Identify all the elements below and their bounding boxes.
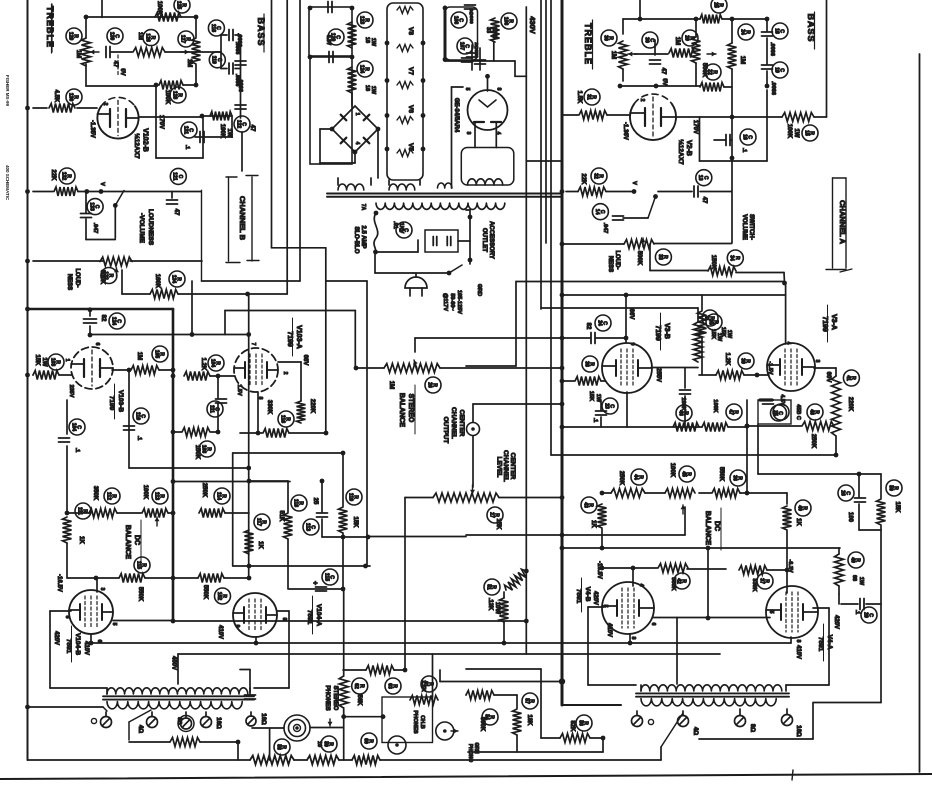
svg-text:PHONO: PHONO xyxy=(467,744,473,762)
svg-text:3: 3 xyxy=(465,132,471,135)
svg-text:V7: V7 xyxy=(407,67,414,75)
svg-text:CHANNEL B: CHANNEL B xyxy=(238,196,247,241)
svg-text:220K: 220K xyxy=(309,399,315,414)
svg-text:STEREO: STEREO xyxy=(407,394,414,423)
svg-text:BALANCE: BALANCE xyxy=(398,393,405,428)
svg-text:½12AX7: ½12AX7 xyxy=(677,139,685,165)
svg-text:100K: 100K xyxy=(164,90,170,105)
svg-text:6.3V: 6.3V xyxy=(325,35,331,46)
svg-text:118: 118 xyxy=(210,24,216,32)
svg-text:V3-B: V3-B xyxy=(663,323,670,339)
svg-text:DC: DC xyxy=(713,521,720,531)
svg-text:.0066: .0066 xyxy=(769,42,775,56)
svg-text:250K: 250K xyxy=(618,471,624,486)
svg-text:45B C: 45B C xyxy=(795,404,801,420)
svg-text:170V: 170V xyxy=(692,120,698,134)
svg-text:7199: 7199 xyxy=(654,325,661,341)
svg-text:100: 100 xyxy=(847,512,853,523)
svg-text:V2-B: V2-B xyxy=(685,140,692,156)
svg-text:-16.5V: -16.5V xyxy=(56,574,62,592)
svg-text:112: 112 xyxy=(105,492,111,500)
svg-text:ACCESSORY: ACCESSORY xyxy=(488,221,494,259)
svg-text:.047: .047 xyxy=(602,223,608,234)
svg-text:V: V xyxy=(631,181,637,185)
svg-text:.0066: .0066 xyxy=(770,81,776,95)
svg-text:1W: 1W xyxy=(858,577,864,586)
svg-text:7199: 7199 xyxy=(286,331,293,347)
svg-text:130: 130 xyxy=(108,32,114,41)
svg-text:18: 18 xyxy=(364,85,370,91)
svg-text:115: 115 xyxy=(135,561,141,569)
svg-text:420V: 420V xyxy=(53,631,59,645)
svg-text:1W: 1W xyxy=(370,86,376,95)
svg-text:1M: 1M xyxy=(674,37,680,45)
svg-text:111: 111 xyxy=(208,405,214,413)
svg-text:1M: 1M xyxy=(75,50,81,58)
svg-text:56: 56 xyxy=(577,720,583,726)
svg-text:.01: .01 xyxy=(392,221,398,229)
svg-text:128: 128 xyxy=(171,91,177,100)
svg-text:103: 103 xyxy=(49,358,55,367)
svg-text:420V: 420V xyxy=(833,615,839,629)
svg-text:.1: .1 xyxy=(136,436,142,441)
svg-text:51: 51 xyxy=(485,584,491,590)
svg-text:TREBLE: TREBLE xyxy=(583,23,593,65)
svg-text:2: 2 xyxy=(639,99,645,102)
svg-text:63: 63 xyxy=(386,683,392,689)
svg-text:500K: 500K xyxy=(701,63,707,78)
svg-text:25: 25 xyxy=(772,410,778,416)
svg-text:8: 8 xyxy=(64,616,70,619)
svg-text:8: 8 xyxy=(281,618,287,621)
svg-text:DC: DC xyxy=(133,535,140,545)
svg-text:330K: 330K xyxy=(751,578,757,591)
svg-text:.1: .1 xyxy=(184,145,190,150)
svg-text:30: 30 xyxy=(602,35,608,41)
svg-text:106: 106 xyxy=(452,16,458,25)
svg-text:500K: 500K xyxy=(479,717,485,732)
svg-text:.1: .1 xyxy=(592,418,598,423)
svg-text:CH.B: CH.B xyxy=(419,715,425,728)
svg-text:410V: 410V xyxy=(217,625,223,639)
svg-text:15: 15 xyxy=(803,130,809,136)
svg-text:4.5K: 4.5K xyxy=(53,90,59,103)
svg-text:123: 123 xyxy=(358,16,364,25)
svg-text:35: 35 xyxy=(707,319,713,325)
svg-text:16: 16 xyxy=(741,134,747,140)
svg-text:.1: .1 xyxy=(741,148,747,153)
svg-text:15K: 15K xyxy=(352,516,358,528)
svg-text:V104-B: V104-B xyxy=(74,633,81,655)
svg-text:110: 110 xyxy=(134,412,140,420)
svg-text:1W: 1W xyxy=(793,129,799,138)
svg-text:24: 24 xyxy=(739,29,745,35)
svg-text:SWITCH-: SWITCH- xyxy=(748,214,754,240)
svg-text:1.5V: 1.5V xyxy=(236,384,242,396)
svg-text:PHONES: PHONES xyxy=(412,710,418,734)
svg-text:82: 82 xyxy=(585,323,591,330)
svg-text:5: 5 xyxy=(464,88,470,91)
svg-text:44: 44 xyxy=(632,474,638,480)
svg-text:40: 40 xyxy=(796,505,802,511)
svg-text:1W: 1W xyxy=(595,394,601,403)
svg-text:LOUD-: LOUD- xyxy=(74,269,80,288)
svg-text:500K: 500K xyxy=(636,251,642,266)
svg-text:105-125V: 105-125V xyxy=(456,290,462,314)
svg-text:1K: 1K xyxy=(590,520,596,528)
svg-text:116: 116 xyxy=(279,415,285,423)
svg-text:220K: 220K xyxy=(847,397,853,412)
svg-text:410V: 410V xyxy=(795,645,801,659)
svg-text:250K: 250K xyxy=(201,483,207,498)
svg-text:39: 39 xyxy=(739,358,745,364)
svg-text:108: 108 xyxy=(200,445,206,454)
svg-text:32: 32 xyxy=(592,173,598,179)
svg-text:115: 115 xyxy=(323,573,329,581)
svg-text:131: 131 xyxy=(182,126,188,135)
svg-text:19: 19 xyxy=(773,67,779,73)
svg-text:118: 118 xyxy=(292,499,298,507)
svg-text:8: 8 xyxy=(496,88,502,91)
svg-text:25: 25 xyxy=(712,2,718,8)
svg-text:100K: 100K xyxy=(712,399,718,412)
svg-text:FISHER MX-99: FISHER MX-99 xyxy=(5,75,10,107)
svg-text:22K: 22K xyxy=(50,169,56,181)
svg-text:.047: .047 xyxy=(92,223,98,234)
svg-text:V102-B: V102-B xyxy=(142,128,149,152)
svg-text:7591: 7591 xyxy=(817,637,824,652)
svg-text:8Ω: 8Ω xyxy=(749,724,755,732)
svg-text:102: 102 xyxy=(216,592,222,601)
svg-text:16Ω: 16Ω xyxy=(260,713,266,725)
svg-text:550K: 550K xyxy=(202,585,208,600)
svg-text:122: 122 xyxy=(235,120,241,129)
svg-text:7199: 7199 xyxy=(821,316,828,332)
svg-text:22K: 22K xyxy=(580,173,586,185)
svg-text:NESS: NESS xyxy=(66,274,72,290)
svg-text:LEVEL: LEVEL xyxy=(496,457,503,478)
svg-text:15K: 15K xyxy=(34,354,40,366)
svg-text:114: 114 xyxy=(215,492,221,500)
svg-text:VOLUME: VOLUME xyxy=(741,214,747,240)
svg-text:7591: 7591 xyxy=(575,589,582,604)
svg-text:1K: 1K xyxy=(78,536,84,544)
svg-text:½12AX7: ½12AX7 xyxy=(133,133,141,159)
svg-text:117: 117 xyxy=(255,518,261,526)
svg-text:CENTER: CENTER xyxy=(509,453,516,480)
svg-text:.13K: .13K xyxy=(487,598,493,611)
svg-text:50-60~: 50-60~ xyxy=(449,293,455,310)
svg-text:GRD: GRD xyxy=(476,284,482,296)
svg-text:37: 37 xyxy=(758,578,764,584)
svg-text:100K: 100K xyxy=(156,1,162,16)
svg-text:104: 104 xyxy=(209,359,215,368)
svg-text:133: 133 xyxy=(102,271,108,280)
svg-text:7: 7 xyxy=(250,343,256,346)
svg-text:29: 29 xyxy=(683,35,689,41)
svg-text:31: 31 xyxy=(585,94,591,100)
svg-text:GE-34/5AR4: GE-34/5AR4 xyxy=(453,98,459,133)
svg-text:4.5V: 4.5V xyxy=(779,394,785,406)
svg-text:36: 36 xyxy=(731,475,737,481)
svg-text:410V: 410V xyxy=(606,623,612,637)
svg-text:57: 57 xyxy=(523,698,529,704)
svg-text:BALANCE: BALANCE xyxy=(124,525,131,560)
svg-text:.0066: .0066 xyxy=(236,33,242,47)
svg-text:26: 26 xyxy=(839,490,845,496)
svg-text:1.2K: 1.2K xyxy=(200,358,206,371)
svg-text:1W: 1W xyxy=(41,358,47,367)
svg-text:56K: 56K xyxy=(356,694,362,706)
svg-text:132: 132 xyxy=(60,172,66,181)
svg-text:7A: 7A xyxy=(360,204,366,211)
svg-text:-1.5V: -1.5V xyxy=(767,361,773,374)
svg-text:V4-A: V4-A xyxy=(826,635,833,650)
svg-text:3: 3 xyxy=(814,360,820,363)
svg-text:26: 26 xyxy=(426,382,432,388)
svg-text:47: 47 xyxy=(173,209,179,216)
svg-text:7199: 7199 xyxy=(108,396,115,411)
svg-text:119: 119 xyxy=(347,493,353,501)
svg-text:CENTER: CENTER xyxy=(458,410,465,437)
svg-text:15K: 15K xyxy=(720,327,726,337)
svg-text:124: 124 xyxy=(110,317,116,326)
svg-text:66V: 66V xyxy=(628,309,634,320)
svg-text:23: 23 xyxy=(603,403,609,409)
svg-text:58: 58 xyxy=(275,744,281,750)
svg-text:16Ω: 16Ω xyxy=(215,717,221,729)
svg-text:2@600: 2@600 xyxy=(468,8,474,24)
svg-text:1.2K: 1.2K xyxy=(724,353,730,366)
svg-text:V103-A: V103-A xyxy=(295,325,302,349)
svg-text:25: 25 xyxy=(312,498,318,505)
svg-text:9: 9 xyxy=(629,343,635,346)
svg-text:2: 2 xyxy=(282,372,288,375)
svg-text:5: 5 xyxy=(768,611,774,614)
svg-text:46: 46 xyxy=(677,410,683,416)
svg-text:51K: 51K xyxy=(278,510,284,522)
svg-text:4Ω: 4Ω xyxy=(692,727,698,735)
svg-text:60V: 60V xyxy=(825,372,831,383)
svg-text:33: 33 xyxy=(657,254,663,260)
svg-text:235V: 235V xyxy=(68,385,74,398)
svg-text:6: 6 xyxy=(94,343,100,346)
svg-text:1KV: 1KV xyxy=(398,223,404,234)
svg-text:121: 121 xyxy=(172,172,178,181)
svg-text:50: 50 xyxy=(887,485,893,491)
svg-text:10W: 10W xyxy=(494,602,500,615)
svg-text:18K: 18K xyxy=(526,714,532,726)
svg-text:104: 104 xyxy=(70,423,76,432)
svg-text:430V: 430V xyxy=(528,16,537,34)
svg-text:14: 14 xyxy=(594,209,600,215)
svg-text:107: 107 xyxy=(458,42,464,51)
svg-text:3: 3 xyxy=(99,588,105,591)
svg-text:2.5 AMP: 2.5 AMP xyxy=(360,225,366,248)
svg-text:-VOLUME: -VOLUME xyxy=(138,213,145,244)
svg-text:.1: .1 xyxy=(854,610,860,615)
svg-text:34: 34 xyxy=(729,255,735,261)
svg-text:13: 13 xyxy=(697,175,703,181)
svg-text:62: 62 xyxy=(353,683,359,689)
svg-text:30: 30 xyxy=(643,37,649,43)
svg-text:0: 0 xyxy=(234,625,240,628)
svg-text:82: 82 xyxy=(100,315,106,322)
svg-text:1.5K: 1.5K xyxy=(576,91,582,104)
svg-text:10: 10 xyxy=(316,741,322,747)
svg-text:-6.3V: -6.3V xyxy=(787,559,793,572)
svg-text:1M: 1M xyxy=(136,352,142,360)
svg-text:V103-B: V103-B xyxy=(117,390,124,412)
svg-text:106: 106 xyxy=(502,17,508,26)
svg-text:550K: 550K xyxy=(670,577,676,590)
svg-text:38: 38 xyxy=(583,361,589,367)
svg-text:24: 24 xyxy=(596,320,602,326)
svg-text:8Ω: 8Ω xyxy=(176,717,182,725)
svg-text:150K: 150K xyxy=(710,255,716,270)
svg-text:NESS: NESS xyxy=(607,256,613,272)
svg-text:6: 6 xyxy=(650,623,656,626)
svg-text:550K: 550K xyxy=(137,587,143,602)
svg-text:4: 4 xyxy=(785,342,791,345)
svg-text:2.5K: 2.5K xyxy=(420,680,426,692)
svg-text:BALANCE: BALANCE xyxy=(704,511,711,546)
svg-text:V: V xyxy=(99,182,105,186)
svg-text:V6: V6 xyxy=(407,105,414,113)
svg-text:LOUD-: LOUD- xyxy=(614,251,620,270)
svg-text:119: 119 xyxy=(211,56,217,64)
svg-text:-1.36V: -1.36V xyxy=(622,122,628,140)
svg-text:47: 47 xyxy=(701,197,707,204)
svg-text:2@600: 2@600 xyxy=(473,42,479,58)
svg-text:1: 1 xyxy=(64,359,70,362)
svg-text:105: 105 xyxy=(153,350,159,359)
svg-text:8: 8 xyxy=(795,640,801,643)
svg-text:1M: 1M xyxy=(610,51,616,59)
svg-text:100K: 100K xyxy=(786,124,792,139)
svg-text:TREBLE: TREBLE xyxy=(45,6,55,48)
svg-text:41: 41 xyxy=(845,375,851,381)
svg-text:129: 129 xyxy=(67,32,73,41)
svg-text:0V: 0V xyxy=(119,68,125,75)
svg-text:111: 111 xyxy=(76,507,82,515)
svg-text:100K: 100K xyxy=(142,485,148,500)
svg-text:124: 124 xyxy=(358,65,364,74)
svg-text:OUTPUT: OUTPUT xyxy=(442,417,449,444)
svg-text:-1.35V: -1.35V xyxy=(89,120,95,138)
svg-text:0V: 0V xyxy=(661,78,667,85)
svg-text:113: 113 xyxy=(304,523,310,531)
svg-text:48: 48 xyxy=(808,409,814,415)
svg-text:18: 18 xyxy=(773,28,779,34)
svg-text:550K: 550K xyxy=(718,467,724,482)
svg-text:PHONES: PHONES xyxy=(324,685,330,710)
svg-text:59: 59 xyxy=(322,741,328,747)
svg-text:134: 134 xyxy=(170,275,176,284)
svg-text:29: 29 xyxy=(862,612,868,618)
svg-text:43: 43 xyxy=(582,502,588,508)
svg-text:160K: 160K xyxy=(154,274,160,289)
svg-text:68: 68 xyxy=(851,575,857,581)
svg-text:1W: 1W xyxy=(726,330,732,339)
svg-text:350K: 350K xyxy=(92,486,98,501)
svg-text:47: 47 xyxy=(249,125,255,132)
svg-text:250K: 250K xyxy=(810,434,816,449)
svg-text:330K: 330K xyxy=(266,400,272,415)
svg-text:1M: 1M xyxy=(186,59,192,67)
svg-text:127: 127 xyxy=(179,35,185,44)
svg-text:18: 18 xyxy=(364,37,370,43)
svg-text:113: 113 xyxy=(153,492,159,500)
svg-text:10W: 10W xyxy=(491,27,497,39)
svg-text:1M: 1M xyxy=(739,56,745,64)
svg-text:CHANNEL A: CHANNEL A xyxy=(838,200,847,244)
svg-text:410V: 410V xyxy=(83,641,89,655)
svg-text:47: 47 xyxy=(660,68,666,75)
svg-text:7591: 7591 xyxy=(306,610,313,625)
svg-text:160K: 160K xyxy=(680,397,686,410)
svg-text:LOUDNESS: LOUDNESS xyxy=(147,209,154,246)
svg-text:125: 125 xyxy=(175,1,181,10)
svg-text:15K: 15K xyxy=(588,391,594,401)
svg-text:27: 27 xyxy=(488,512,494,518)
svg-text:49: 49 xyxy=(849,557,855,563)
svg-text:V8: V8 xyxy=(407,27,414,35)
svg-text:47: 47 xyxy=(727,409,733,415)
svg-text:V104-A: V104-A xyxy=(315,604,322,626)
svg-text:33: 33 xyxy=(485,27,491,33)
svg-text:1K: 1K xyxy=(257,541,263,549)
svg-text:450V: 450V xyxy=(171,656,177,670)
svg-text:4Ω: 4Ω xyxy=(137,725,143,733)
svg-text:126: 126 xyxy=(144,33,150,42)
svg-text:@117V: @117V xyxy=(442,293,448,311)
svg-text:SLO-BLO: SLO-BLO xyxy=(353,227,359,254)
svg-text:1K: 1K xyxy=(795,518,801,526)
svg-text:1M: 1M xyxy=(388,381,394,389)
svg-text:82K: 82K xyxy=(569,720,575,732)
svg-text:45: 45 xyxy=(680,471,686,477)
svg-text:8: 8 xyxy=(630,637,636,640)
svg-text:100K: 100K xyxy=(669,463,675,478)
svg-text:+: + xyxy=(311,581,318,585)
svg-text:CHANNEL: CHANNEL xyxy=(450,407,457,439)
svg-text:400 SCHEMATIC: 400 SCHEMATIC xyxy=(5,165,10,201)
svg-text:16Ω: 16Ω xyxy=(795,725,801,737)
svg-text:4: 4 xyxy=(354,142,360,145)
svg-text:47: 47 xyxy=(112,61,118,68)
svg-text:1: 1 xyxy=(354,113,360,116)
svg-text:1W: 1W xyxy=(370,38,376,47)
svg-text:255V: 255V xyxy=(655,368,661,382)
svg-text:6: 6 xyxy=(96,640,102,643)
svg-text:2: 2 xyxy=(102,103,108,106)
svg-text:V4-B: V4-B xyxy=(584,587,591,602)
svg-text:V3-A: V3-A xyxy=(830,314,837,330)
svg-text:60: 60 xyxy=(362,738,368,744)
svg-text:OUTLET: OUTLET xyxy=(481,228,487,252)
svg-text:420V: 420V xyxy=(592,591,598,605)
svg-text:7591: 7591 xyxy=(65,639,72,654)
svg-text:130: 130 xyxy=(67,93,73,102)
svg-text:1M: 1M xyxy=(137,32,143,40)
svg-text:.1: .1 xyxy=(74,448,80,453)
svg-text:15K: 15K xyxy=(894,501,900,513)
svg-text:133: 133 xyxy=(89,202,95,211)
svg-text:68V: 68V xyxy=(302,355,308,366)
svg-text:5: 5 xyxy=(111,623,117,626)
svg-text:170V: 170V xyxy=(158,115,164,129)
